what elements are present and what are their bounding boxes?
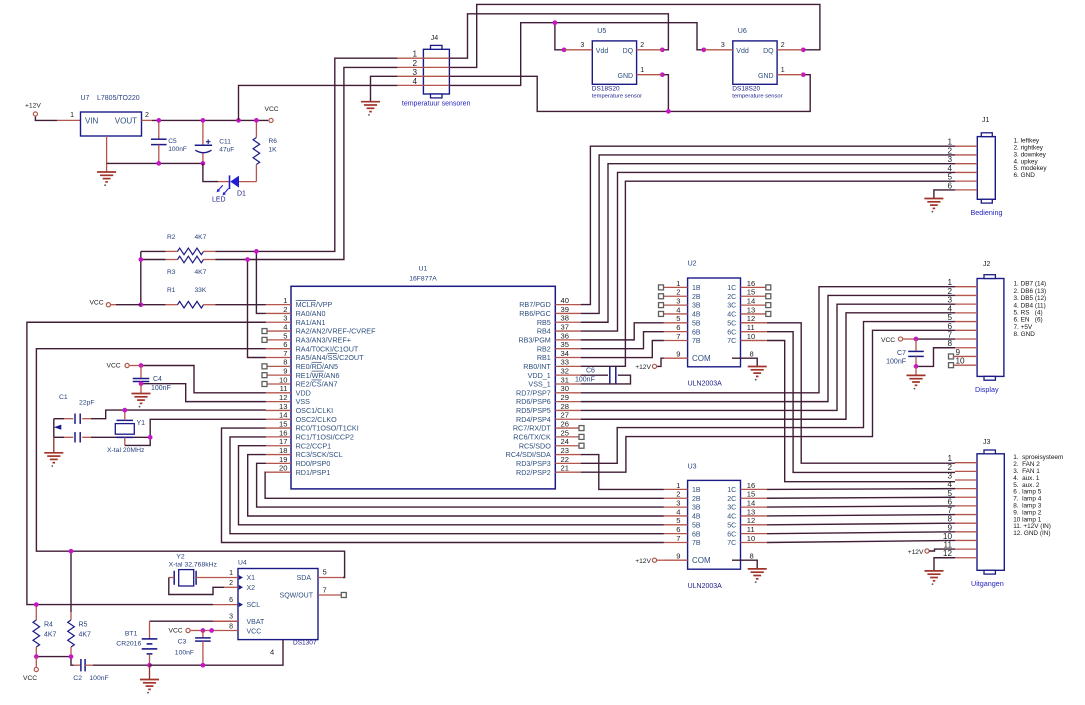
svg-text:5: 5 (947, 313, 952, 322)
svg-text:1: 1 (283, 296, 287, 305)
svg-text:33K: 33K (195, 287, 207, 294)
connector J2 Display (977, 279, 1004, 377)
svg-text:VCC: VCC (265, 106, 279, 113)
svg-text:4: 4 (676, 305, 680, 314)
svg-text:10: 10 (747, 534, 755, 543)
ground C1 (44, 453, 63, 463)
svg-text:U6: U6 (738, 28, 747, 35)
svg-text:15: 15 (747, 490, 755, 499)
svg-text:1. DB7 (14): 1. DB7 (14) (1014, 281, 1047, 288)
svg-text:8: 8 (750, 551, 754, 560)
svg-text:2: 2 (412, 59, 417, 68)
svg-text:J1: J1 (982, 117, 990, 124)
wire Y1 to OSC2 loop (124, 437, 126, 445)
temperature sensor U5 DS18S20 (592, 41, 636, 84)
unconnected pins U1 right (579, 426, 584, 431)
svg-text:RD0/PSP0: RD0/PSP0 (296, 459, 331, 468)
svg-text:9: 9 (956, 348, 961, 357)
svg-text:1: 1 (70, 112, 74, 119)
svg-text:RA5/AN4/SS/C2OUT: RA5/AN4/SS/C2OUT (296, 353, 365, 362)
svg-text:1B: 1B (692, 487, 701, 494)
svg-text:VCC: VCC (247, 629, 262, 636)
wire VCC pullup vertical (140, 251, 142, 304)
svg-text:6C: 6C (727, 329, 736, 336)
svg-text:U7: U7 (81, 95, 90, 102)
svg-text:temperature sensor: temperature sensor (732, 94, 782, 100)
svg-text:4: 4 (676, 507, 680, 516)
wire R4 R5 bottom link (36, 657, 73, 666)
svg-text:CR2016: CR2016 (116, 641, 141, 648)
svg-text:16F877A: 16F877A (409, 276, 437, 283)
svg-text:VDD_1: VDD_1 (528, 371, 551, 380)
wire U3 7C to J3 pin10 (767, 540, 955, 542)
svg-text:1C: 1C (727, 487, 736, 494)
wire U2 6C to J3 pin2 (741, 331, 767, 333)
connector J3 Uitgangen (977, 454, 1004, 571)
svg-text:7C: 7C (727, 540, 736, 547)
svg-text:R5: R5 (79, 622, 88, 629)
svg-text:8. GND: 8. GND (1014, 331, 1036, 338)
svg-text:+12V: +12V (908, 549, 924, 556)
svg-text:11: 11 (747, 525, 755, 534)
svg-text:VCC: VCC (23, 675, 37, 682)
svg-text:6C: 6C (727, 531, 736, 538)
svg-text:2B: 2B (692, 496, 701, 503)
wire RD2 to J2 pin6 (581, 330, 955, 472)
svg-text:6: 6 (676, 323, 680, 332)
svg-text:1: 1 (947, 278, 952, 287)
svg-text:3C: 3C (727, 303, 736, 310)
svg-text:DQ: DQ (623, 48, 634, 55)
ground J4 pin3 (361, 102, 380, 112)
svg-text:RD4/PSP4: RD4/PSP4 (516, 415, 551, 424)
svg-text:13: 13 (747, 305, 755, 314)
svg-text:6. EN (6): 6. EN (6) (1014, 317, 1043, 324)
svg-text:U3: U3 (688, 464, 697, 471)
wire C4 ground stem (140, 384, 142, 394)
svg-text:11: 11 (747, 323, 755, 332)
svg-text:Y1: Y1 (137, 420, 146, 427)
svg-text:6: 6 (229, 597, 233, 604)
capacitor C4 100nF (140, 366, 142, 379)
svg-text:19: 19 (279, 455, 287, 464)
svg-text:4B: 4B (692, 514, 701, 521)
svg-text:6B: 6B (692, 531, 701, 538)
svg-text:5: 5 (283, 331, 287, 340)
svg-text:RA3/AN3/VREF+: RA3/AN3/VREF+ (296, 335, 351, 344)
svg-text:RD1/PSP1: RD1/PSP1 (296, 468, 331, 477)
svg-text:RC5/SDO: RC5/SDO (519, 441, 551, 450)
svg-text:4: 4 (270, 647, 274, 656)
svg-text:RB5: RB5 (537, 318, 551, 327)
wire R2 to RA0 (256, 251, 266, 313)
svg-text:RE2/CS/AN7: RE2/CS/AN7 (296, 380, 338, 389)
svg-text:10: 10 (747, 332, 755, 341)
wire RD0 to U3 3B (257, 463, 664, 507)
svg-text:1: 1 (781, 67, 785, 74)
svg-text:RB0/INT: RB0/INT (523, 362, 551, 371)
unconnected pins J2 9 10 (949, 354, 954, 359)
svg-text:RE1/WR/AN6: RE1/WR/AN6 (296, 371, 340, 380)
svg-text:J4: J4 (431, 35, 439, 42)
svg-text:9: 9 (283, 367, 287, 376)
svg-text:OSC1/CLKI: OSC1/CLKI (296, 406, 334, 415)
wire J4 pin2 right to U6 DQ (449, 4, 820, 67)
wire J4 pin1 to R2/RA0 net (256, 58, 397, 251)
wire U2 5C to J3 pin1 (741, 322, 767, 324)
svg-text:DS1307: DS1307 (293, 639, 317, 646)
svg-text:4K7: 4K7 (79, 632, 92, 639)
svg-text:ULN2003A: ULN2003A (688, 381, 723, 388)
svg-text:temperature sensor: temperature sensor (592, 94, 642, 100)
wire C7 ground stem (915, 366, 917, 375)
svg-text:Vdd: Vdd (596, 48, 609, 55)
svg-text:RC7/RX/DT: RC7/RX/DT (513, 424, 552, 433)
svg-text:R1: R1 (167, 287, 176, 294)
wire RB6 to J1 pin2 (581, 155, 955, 313)
svg-text:22pF: 22pF (79, 400, 95, 407)
svg-text:DQ: DQ (763, 48, 774, 55)
wire GND rail U4 (150, 640, 284, 666)
svg-text:20: 20 (279, 464, 287, 473)
svg-text:RB3/PGM: RB3/PGM (518, 335, 550, 344)
svg-text:2: 2 (676, 490, 680, 499)
wire RC1 to U3 6B (230, 437, 664, 534)
svg-text:RD3/PSP3: RD3/PSP3 (516, 459, 551, 468)
svg-text:7: 7 (676, 534, 680, 543)
wire RB5 to J1 pin3 (581, 164, 955, 323)
svg-text:RB1: RB1 (537, 353, 551, 362)
svg-text:9: 9 (676, 551, 680, 560)
svg-text:21: 21 (561, 464, 569, 473)
svg-text:7. +5V: 7. +5V (1014, 324, 1033, 331)
svg-text:RB4: RB4 (537, 327, 551, 336)
svg-text:3C: 3C (727, 505, 736, 512)
svg-text:VSS_1: VSS_1 (528, 380, 550, 389)
svg-text:100nF: 100nF (886, 359, 906, 366)
svg-text:VOUT: VOUT (115, 116, 137, 125)
svg-text:4K7: 4K7 (195, 269, 207, 276)
svg-text:22: 22 (561, 455, 569, 464)
svg-text:40: 40 (561, 296, 569, 305)
svg-text:DS18S20: DS18S20 (732, 86, 760, 93)
svg-text:37: 37 (561, 322, 569, 331)
svg-text:2: 2 (947, 146, 952, 155)
wire U2 7C to J3 pin3 (741, 340, 767, 342)
svg-text:C7: C7 (897, 350, 906, 357)
svg-text:12: 12 (747, 516, 755, 525)
svg-text:33: 33 (561, 358, 569, 367)
svg-text:10: 10 (956, 357, 966, 366)
svg-text:X-tal 20MHz: X-tal 20MHz (107, 447, 145, 454)
svg-text:2: 2 (145, 112, 149, 119)
svg-text:8: 8 (947, 339, 952, 348)
wire J3 pin12 to ground (934, 558, 955, 571)
wire RC0 to U3 7B (222, 428, 664, 542)
svg-text:4B: 4B (692, 312, 701, 319)
svg-text:VIN: VIN (85, 116, 99, 125)
capacitor C5 100nF (158, 120, 160, 139)
RTC U4 DS1307 (238, 569, 318, 640)
svg-text:7: 7 (283, 349, 287, 358)
svg-text:11: 11 (280, 384, 288, 393)
svg-text:C2: C2 (73, 675, 82, 682)
svg-text:3: 3 (580, 42, 584, 49)
wire RB0/INT to J1 pin5 (581, 181, 955, 366)
svg-text:2B: 2B (692, 294, 701, 301)
unconnected pins U2 outputs 1C-4C (766, 285, 771, 290)
svg-text:RD6/PSP6: RD6/PSP6 (516, 397, 551, 406)
svg-text:3B: 3B (692, 505, 701, 512)
wire RD1 to U3 2B (265, 472, 664, 498)
svg-text:5. RS (4): 5. RS (4) (1014, 310, 1043, 317)
svg-text:5C: 5C (727, 522, 736, 529)
svg-text:6: 6 (947, 322, 952, 331)
wire Y1 to OSC1 (124, 410, 126, 420)
connector J1 Bediening (977, 137, 995, 200)
svg-text:R4: R4 (44, 622, 53, 629)
svg-text:7: 7 (323, 585, 327, 594)
wire C7 to J2 pin8 GND (916, 348, 955, 367)
svg-text:+12V: +12V (635, 558, 651, 565)
svg-text:COM: COM (692, 354, 711, 363)
svg-text:U5: U5 (597, 28, 606, 35)
wire SDA net RA4 to DS1307 (36, 349, 344, 578)
svg-text:26: 26 (561, 419, 569, 428)
wire R3 to RA5 (248, 260, 266, 358)
svg-text:X1: X1 (247, 575, 256, 582)
svg-text:RC3/SCK/SCL: RC3/SCK/SCL (296, 450, 343, 459)
svg-text:1: 1 (947, 138, 952, 147)
svg-text:GND: GND (618, 73, 634, 80)
wire RC2 to U3 5B (239, 446, 664, 525)
node VCC below R4 (35, 657, 37, 667)
svg-text:15: 15 (747, 288, 755, 297)
wire J4 pin4 to VCC rail (239, 85, 398, 120)
svg-text:3: 3 (721, 42, 725, 49)
svg-text:RB6/PGC: RB6/PGC (519, 309, 551, 318)
svg-text:+12V: +12V (25, 103, 41, 110)
wire RD6 to J2 pin2 (581, 295, 955, 401)
wire U7 GND stem (106, 136, 108, 172)
svg-text:Display: Display (975, 385, 999, 394)
svg-text:6: 6 (283, 340, 287, 349)
svg-text:30: 30 (561, 384, 569, 393)
svg-text:1: 1 (412, 50, 417, 59)
svg-text:2. DB6 (13): 2. DB6 (13) (1014, 288, 1047, 295)
wire J4 pin3 right to sensor GND bus (449, 75, 810, 112)
svg-text:5B: 5B (692, 320, 701, 327)
svg-text:RC2/CCP1: RC2/CCP1 (296, 441, 332, 450)
svg-text:ULN2003A: ULN2003A (688, 583, 723, 590)
svg-text:1: 1 (229, 570, 233, 577)
svg-text:25: 25 (561, 428, 569, 437)
svg-text:7C: 7C (727, 338, 736, 345)
wire U5 GND to bus (662, 75, 668, 112)
wire RC3 to U3 4B (248, 455, 664, 516)
svg-text:13: 13 (747, 507, 755, 516)
svg-text:VCC: VCC (169, 628, 183, 635)
svg-text:C5: C5 (168, 138, 177, 145)
svg-text:3: 3 (676, 297, 680, 306)
svg-text:6B: 6B (692, 329, 701, 336)
wire RD4 to J2 pin4 (581, 313, 955, 419)
svg-text:X-tal 32,768kHz: X-tal 32,768kHz (169, 562, 218, 569)
svg-text:5B: 5B (692, 522, 701, 529)
svg-text:C11: C11 (219, 139, 231, 146)
svg-text:RD7/PSP7: RD7/PSP7 (516, 388, 551, 397)
svg-text:RC0/T1OSO/T1CKI: RC0/T1OSO/T1CKI (296, 424, 359, 433)
wire U3 2C to J3 pin5 (767, 496, 955, 499)
svg-text:17: 17 (279, 437, 287, 446)
svg-text:39: 39 (561, 305, 569, 314)
svg-text:RD2/PSP2: RD2/PSP2 (516, 468, 551, 477)
svg-text:+12V: +12V (635, 364, 651, 371)
svg-text:SCL: SCL (247, 602, 261, 609)
svg-text:5: 5 (323, 568, 327, 577)
svg-text:3: 3 (947, 155, 952, 164)
regulator U7 L7805/TO220 (81, 112, 142, 136)
svg-text:16: 16 (747, 481, 755, 490)
diode D1 LED (203, 163, 218, 181)
ground U7 (97, 172, 116, 182)
wire RB2 to U2 6B (581, 332, 664, 349)
svg-text:100nF: 100nF (89, 675, 108, 682)
wire RB7 to J1 pin1 (581, 146, 955, 304)
svg-text:R3: R3 (167, 269, 176, 276)
svg-text:4C: 4C (727, 312, 736, 319)
svg-text:12. GND (IN): 12. GND (IN) (1013, 530, 1050, 537)
svg-text:1: 1 (676, 279, 680, 288)
svg-text:5C: 5C (727, 320, 736, 327)
svg-text:31: 31 (561, 375, 569, 384)
svg-text:RA4/T0CKI/C1OUT: RA4/T0CKI/C1OUT (296, 344, 359, 353)
svg-text:RA0/AN0: RA0/AN0 (296, 309, 326, 318)
svg-text:2: 2 (676, 288, 680, 297)
svg-text:5: 5 (676, 314, 680, 323)
wire RB3 to U2 5B (581, 323, 664, 340)
svg-text:27: 27 (561, 411, 569, 420)
ground U3 pin8 (748, 569, 767, 579)
svg-text:U4: U4 (238, 560, 247, 567)
ground C7 (907, 375, 926, 385)
svg-text:2: 2 (640, 42, 644, 49)
svg-text:14: 14 (279, 411, 287, 420)
svg-text:12: 12 (747, 314, 755, 323)
svg-text:3: 3 (229, 614, 233, 621)
svg-text:J3: J3 (983, 439, 991, 446)
svg-text:14: 14 (747, 499, 755, 508)
svg-text:4: 4 (947, 164, 952, 173)
svg-text:2: 2 (947, 287, 952, 296)
svg-text:VBAT: VBAT (247, 619, 265, 626)
ground U2 pin8 (748, 367, 767, 377)
svg-text:U2: U2 (688, 261, 697, 268)
svg-text:3B: 3B (692, 303, 701, 310)
svg-text:13: 13 (279, 402, 287, 411)
svg-text:36: 36 (561, 331, 569, 340)
svg-text:28: 28 (561, 402, 569, 411)
svg-text:RC1/T1OSI/CCP2: RC1/T1OSI/CCP2 (296, 433, 354, 442)
svg-text:RA2/AN2/VREF-/CVREF: RA2/AN2/VREF-/CVREF (296, 327, 376, 336)
wire VBAT stub (213, 620, 238, 622)
svg-text:4K7: 4K7 (44, 632, 57, 639)
svg-text:100nF: 100nF (168, 146, 187, 153)
svg-text:BT1: BT1 (125, 631, 138, 638)
svg-text:7B: 7B (692, 540, 701, 547)
svg-text:3. DB5 (12): 3. DB5 (12) (1014, 295, 1047, 302)
svg-text:RB7/PGD: RB7/PGD (519, 300, 551, 309)
svg-text:14: 14 (747, 297, 755, 306)
svg-text:U1: U1 (419, 266, 428, 273)
wire RD5 to J2 pin3 (581, 304, 955, 410)
wire U3 5C to J3 pin8 (767, 523, 955, 525)
svg-text:COM: COM (692, 556, 711, 565)
svg-text:10: 10 (279, 375, 287, 384)
svg-text:R6: R6 (269, 138, 278, 145)
wire Y2 to X1 (196, 577, 213, 579)
wire U3 4C to J3 pin7 (767, 515, 955, 516)
svg-text:temperatuur sensoren: temperatuur sensoren (402, 101, 471, 108)
wire J4 pin3 to ground (371, 76, 398, 101)
svg-text:3: 3 (412, 68, 417, 77)
wire J4 pin1 right to U5 DQ (449, 14, 668, 58)
wire J4 pin2 to R3/RA5 net (248, 67, 398, 259)
svg-text:35: 35 (561, 340, 569, 349)
wire +12V to U7 VIN (35, 117, 57, 121)
wire J4 pin4 right to sensor Vdd bus (449, 23, 703, 86)
svg-text:DS18S20: DS18S20 (592, 86, 620, 93)
svg-text:6: 6 (676, 525, 680, 534)
svg-text:C4: C4 (153, 376, 162, 383)
svg-text:4: 4 (412, 77, 417, 86)
svg-text:Uitgangen: Uitgangen (971, 579, 1004, 588)
svg-text:GND: GND (758, 73, 774, 80)
wire J1 pin6 to ground (934, 190, 955, 199)
ground C4 (132, 394, 151, 404)
svg-text:L7805/TO220: L7805/TO220 (97, 95, 140, 102)
svg-text:SDA: SDA (297, 575, 312, 582)
svg-text:MCLR/VPP: MCLR/VPP (296, 300, 333, 309)
wire RB1 to U2 7B (581, 341, 664, 358)
svg-text:VDD: VDD (296, 388, 311, 397)
svg-text:R2: R2 (167, 234, 176, 241)
wire SCL net RA1 to DS1307 (27, 322, 266, 604)
svg-text:LED: LED (212, 197, 226, 204)
svg-text:6: 6 (947, 181, 952, 190)
svg-text:2: 2 (229, 580, 233, 587)
wire RB4 to J1 pin4 (581, 172, 955, 331)
wire RD3 to J2 pin5 (581, 322, 955, 464)
svg-text:VSS: VSS (296, 397, 311, 406)
svg-text:OSC2/CLKO: OSC2/CLKO (296, 415, 338, 424)
svg-text:C1: C1 (59, 394, 68, 401)
connector J4 temperatuur sensoren (423, 49, 449, 94)
svg-text:100nF: 100nF (175, 650, 194, 657)
svg-text:12: 12 (943, 549, 953, 558)
svg-text:C6: C6 (586, 368, 595, 375)
svg-text:16: 16 (279, 428, 287, 437)
svg-text:8: 8 (283, 358, 287, 367)
resistor R6 1K (255, 120, 257, 137)
svg-text:5: 5 (676, 516, 680, 525)
svg-text:34: 34 (561, 349, 569, 358)
driver U2 ULN2003A (688, 278, 741, 367)
svg-text:4C: 4C (727, 514, 736, 521)
svg-text:47uF: 47uF (219, 147, 234, 154)
svg-text:6. GND: 6. GND (1014, 172, 1036, 179)
wire C1 common to ground (53, 419, 55, 438)
